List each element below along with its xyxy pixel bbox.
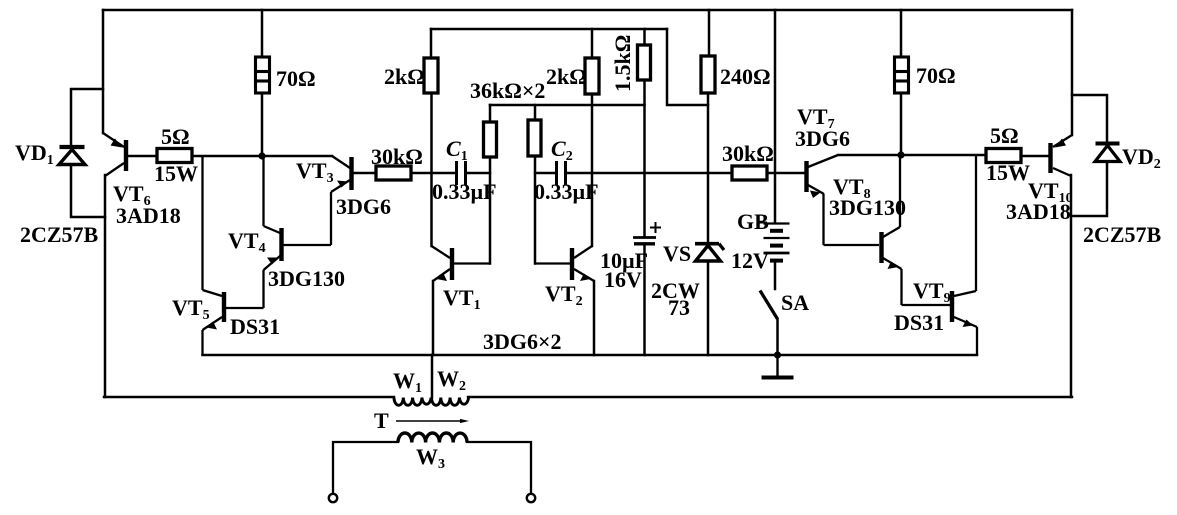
transistor VT4 3DG130 (264, 156, 282, 308)
resistor 30k right (732, 166, 767, 180)
svg-text:VT3: VT3 (296, 158, 334, 186)
svg-text:70Ω: 70Ω (276, 66, 316, 91)
svg-text:DS31: DS31 (230, 314, 280, 339)
transistor VT9 DS31 (952, 155, 977, 355)
svg-text:0.33µF: 0.33µF (432, 179, 497, 204)
wire 70ohm left bottom to node (261, 93, 264, 156)
svg-text:VD2: VD2 (1122, 144, 1161, 172)
svg-text:12V: 12V (731, 248, 769, 273)
label GB dash (759, 222, 767, 224)
wire 36k2 node to C2 (535, 172, 555, 175)
capacitor 10uF 16V (633, 222, 661, 244)
svg-text:VS: VS (663, 241, 691, 266)
wire bottom rail right of transformer (468, 396, 1072, 399)
transistor VT5 DS31 (203, 156, 264, 355)
svg-text:3DG6: 3DG6 (795, 126, 850, 151)
wire left vertical lower (VT6 collector to bottom rail) (104, 175, 107, 397)
wire left vertical upper (102, 10, 105, 133)
svg-text:GB: GB (737, 209, 769, 234)
svg-text:1.5kΩ: 1.5kΩ (610, 35, 635, 92)
wire battery drop from top rail (774, 10, 777, 222)
transistor VT6 3AD18 (103, 133, 126, 176)
resistor 2k left (424, 58, 438, 93)
wire 1.5k bottom to 10uF (643, 80, 646, 236)
svg-text:C1: C1 (446, 136, 468, 164)
svg-text:VT4: VT4 (228, 228, 266, 256)
zener diode VS 2CW73 (695, 244, 724, 261)
transistor VT8 3DG130 (882, 155, 951, 305)
svg-text:VT5: VT5 (172, 295, 210, 323)
svg-text:2CZ57B: 2CZ57B (20, 222, 99, 247)
transistor VT3 3DG6 (283, 156, 352, 245)
wire 36k bias line (490, 104, 645, 107)
svg-text:2kΩ: 2kΩ (384, 64, 425, 89)
wire right vertical lower (VT10 collector to bottom rail) (1070, 175, 1073, 397)
wire battery to switch (774, 261, 777, 289)
svg-text:30kΩ: 30kΩ (371, 144, 423, 169)
wire VT3 base to 30k left (353, 172, 376, 175)
transistor VT1 3DG6 (432, 246, 491, 281)
wire 70ohm right drop from top rail (900, 10, 903, 57)
wire 240 bottom link (667, 29, 708, 105)
wire 2k right top lead (591, 29, 594, 58)
transistor VT2 3DG6 (535, 246, 594, 281)
capacitor C2 (557, 161, 566, 185)
transistor VT7 3DG6 (807, 155, 880, 245)
wire 36k no2 bottom to VT2 base (534, 156, 537, 264)
transistor VT10 3AD18 (1051, 135, 1073, 176)
wire 70ohm left drop from top rail (261, 10, 264, 57)
switch SA (760, 291, 778, 320)
wire VS to ground rail (707, 263, 710, 355)
wire W3 right lead (466, 442, 531, 493)
svg-text:3DG6×2: 3DG6×2 (483, 329, 562, 354)
resistor 2k right (585, 58, 599, 94)
resistor 240 (701, 56, 715, 93)
resistor 30k left (376, 166, 411, 180)
transformer core arrow (396, 419, 469, 423)
svg-text:2CZ57B: 2CZ57B (1083, 222, 1162, 247)
battery GB 12V (764, 224, 790, 261)
wire 36k no1 bottom to VT1 base (489, 157, 492, 264)
svg-text:SA: SA (781, 290, 809, 315)
svg-text:3DG130: 3DG130 (829, 195, 906, 220)
node dot VT7 collector line (897, 151, 904, 158)
svg-text:2kΩ: 2kΩ (546, 64, 587, 89)
svg-text:73: 73 (668, 295, 690, 320)
svg-text:240Ω: 240Ω (720, 64, 771, 89)
wire top rail (103, 9, 1072, 12)
wire VT7 collector line to 5ohm (838, 154, 986, 157)
svg-text:T: T (374, 408, 389, 433)
wire 2k left bottom to VT1 collector (430, 93, 433, 246)
wire transformer center tap (431, 355, 434, 397)
svg-text:C2: C2 (551, 136, 573, 164)
resistor 1.5k (638, 45, 651, 80)
wire bottom rail left of transformer (104, 396, 394, 399)
wire switch to ground rail (776, 319, 779, 355)
wire 240 bottom to VS (707, 93, 710, 242)
resistor 70ohm right (895, 57, 909, 93)
resistor 36k no2 (528, 120, 541, 156)
ground symbol (762, 355, 794, 378)
capacitor C1 (457, 161, 466, 185)
wire 2k right bottom to VT2 collector (591, 94, 594, 246)
wire 30k right to VT7 base (767, 172, 804, 175)
svg-text:30kΩ: 30kΩ (722, 141, 774, 166)
wire W3 left lead (333, 442, 531, 493)
resistor 36k no1 (484, 122, 497, 157)
transformer T windings W1 W2 on bottom rail (394, 398, 469, 406)
svg-text:5Ω: 5Ω (990, 123, 1019, 148)
wire 1.5k top lead (643, 29, 646, 45)
wire VD1 top stub (71, 89, 103, 146)
svg-text:0.33µF: 0.33µF (534, 179, 599, 204)
terminal left (329, 494, 337, 502)
wire mid ground rail (203, 354, 978, 357)
wire 2k top line (431, 28, 667, 31)
wire 240 drop from top rail (708, 10, 711, 56)
svg-text:15W: 15W (986, 160, 1030, 185)
svg-text:16V: 16V (604, 267, 642, 292)
resistor 70ohm left (256, 57, 270, 93)
wire 10uF to ground rail (643, 245, 646, 355)
wire 2k left top lead (430, 29, 433, 58)
svg-text:VT2: VT2 (545, 281, 583, 309)
svg-text:W2: W2 (437, 366, 466, 394)
svg-text:36kΩ×2: 36kΩ×2 (470, 78, 545, 103)
svg-text:70Ω: 70Ω (916, 63, 956, 88)
svg-text:DS31: DS31 (894, 310, 944, 335)
wire 36k no2 top lead (534, 105, 537, 120)
terminal right (527, 494, 535, 502)
diode VD1 2CZ57B (59, 147, 85, 165)
resistor 5ohm 15W left (157, 149, 192, 163)
wire VD1 bottom connect (71, 165, 105, 217)
wire 30k left to C1 (411, 172, 455, 175)
wire C1 to 36k node (467, 172, 490, 175)
svg-text:W3: W3 (416, 444, 445, 472)
node dot ground rail (774, 351, 781, 358)
svg-text:15W: 15W (154, 161, 198, 186)
wire base line VT6 to VT3 (128, 155, 157, 158)
wire VT1 emitter to rail (432, 281, 435, 355)
node dot base line (258, 152, 265, 159)
svg-text:W1: W1 (393, 368, 422, 396)
svg-text:3DG6: 3DG6 (336, 194, 391, 219)
wire VD2 top stub (1072, 95, 1107, 143)
wire C2 to 30k right (567, 172, 732, 175)
svg-text:VD1: VD1 (15, 140, 54, 168)
diode VD2 2CZ57B (1095, 144, 1120, 162)
wire 5ohm right to VT10 base (1021, 155, 1048, 158)
wire VT2 emitter to rail (593, 281, 596, 355)
transformer winding W3 (398, 433, 467, 443)
wire 36k no1 top lead (489, 105, 492, 122)
svg-text:VT1: VT1 (443, 285, 481, 313)
svg-text:VT9: VT9 (913, 278, 951, 306)
wire right vertical upper (1071, 10, 1074, 135)
svg-text:3DG130: 3DG130 (268, 266, 345, 291)
wire VD2 bottom connect (1072, 162, 1107, 216)
svg-text:3AD18: 3AD18 (116, 203, 181, 228)
svg-text:3AD18: 3AD18 (1006, 199, 1071, 224)
svg-text:5Ω: 5Ω (161, 124, 190, 149)
wire 70ohm right bottom to node (900, 93, 903, 155)
resistor 5ohm 15W right (986, 149, 1021, 163)
